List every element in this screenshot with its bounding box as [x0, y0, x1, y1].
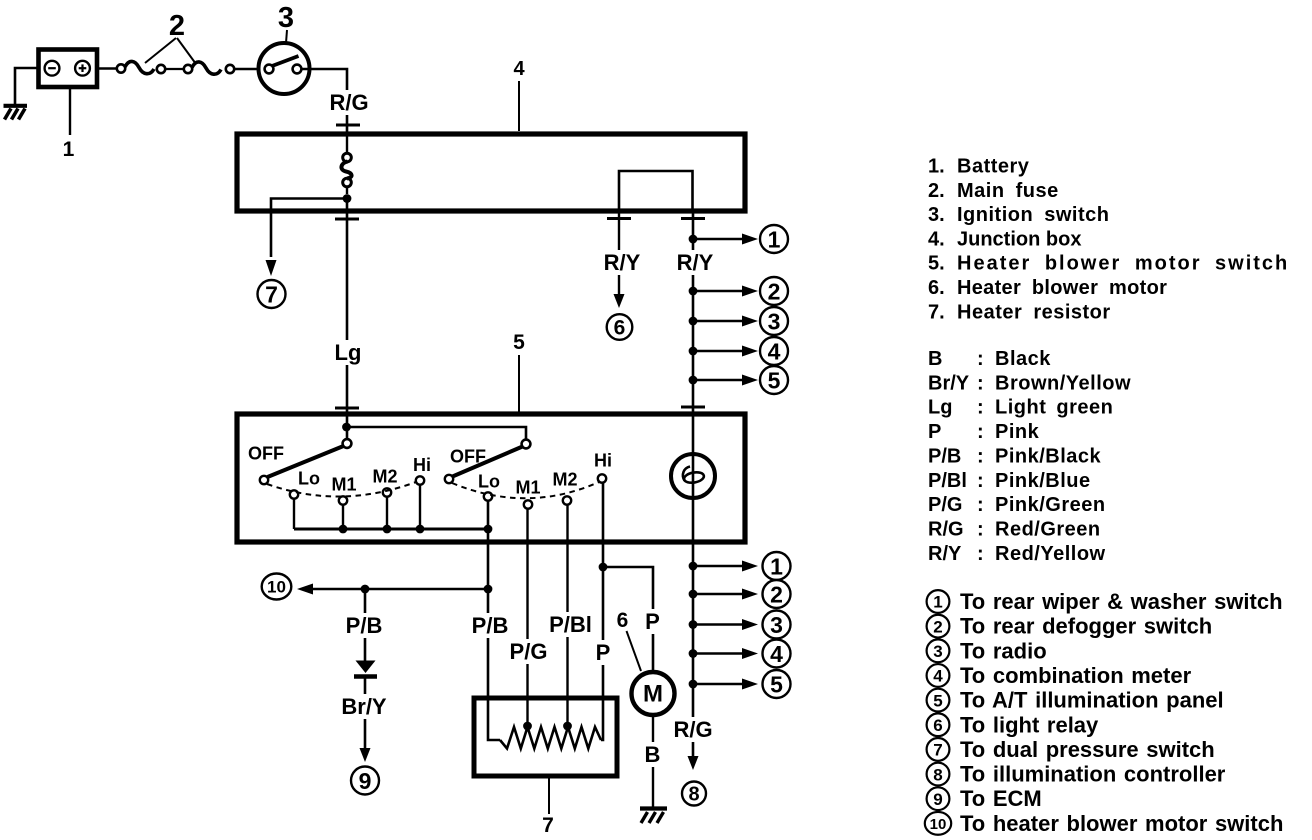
svg-text:6: 6: [614, 317, 626, 340]
label P/B (resistor feed): [467, 613, 513, 638]
svg-text:M: M: [643, 681, 663, 708]
svg-text:6.: 6.: [928, 277, 945, 299]
svg-text:Heater blower motor: Heater blower motor: [957, 277, 1167, 299]
wire P/B branch down to diode: [364, 589, 367, 661]
svg-text:8: 8: [688, 784, 699, 806]
connector tick on R/G wire: [336, 124, 360, 127]
label 4 (junction box) with leader: [518, 81, 520, 131]
node on P wire feeding motor: [599, 563, 608, 572]
wire R/Y to heater blower motor: [618, 211, 620, 294]
connector tick R/Y trunk: [681, 217, 705, 220]
circled 2 (upper): [760, 277, 788, 305]
circled 3 (upper): [760, 307, 788, 335]
switch 1 contact Hi: [416, 476, 424, 484]
wire P/G from switch 2 M1 down to resistor tap: [526, 509, 528, 726]
switch 1 OFF contact: [260, 476, 268, 484]
svg-text:Lo: Lo: [478, 472, 500, 492]
node and arrow to circled 3 (lower): [689, 620, 698, 629]
svg-text:1.: 1.: [928, 156, 945, 178]
node and arrow to circled 5 (upper): [689, 376, 698, 385]
svg-text::: :: [977, 518, 984, 540]
node and arrow to circled 1 (lower): [689, 562, 698, 571]
wire Lg junction box to blower switch box: [346, 199, 349, 441]
switch 1 contact stems to bus: [293, 499, 295, 529]
switch arm 2 (OFF position): [453, 447, 523, 477]
label P/G: [505, 639, 552, 664]
svg-text:10: 10: [930, 816, 947, 833]
switch 2 contact M1: [524, 500, 532, 508]
label P/B (branch to 9/10): [341, 613, 387, 638]
node on wire to 10 where P/B branch drops: [361, 585, 370, 594]
node and arrow to circled 2 (upper): [689, 287, 698, 296]
svg-text:R/G: R/G: [673, 717, 712, 742]
resistor tap node P/Bl: [563, 722, 572, 731]
wire branch to dual pressure switch arrow: [271, 199, 347, 258]
svg-text:Hi: Hi: [594, 451, 612, 471]
svg-text:1: 1: [933, 593, 942, 612]
connector tick below junction box (Lg): [335, 218, 359, 221]
svg-text:P: P: [645, 609, 660, 634]
link wire to second switch pivot: [347, 427, 527, 439]
svg-text:To light relay: To light relay: [960, 712, 1099, 737]
wire B motor to ground: [652, 714, 654, 807]
connector tick R/Y left: [607, 217, 631, 220]
ground (motor): [640, 806, 667, 810]
junction box 4: [237, 134, 745, 211]
svg-text:To illumination controller: To illumination controller: [960, 762, 1226, 787]
circled 7 - to dual pressure switch: [258, 280, 286, 308]
switch 2 contact M2: [563, 496, 571, 504]
svg-text:To heater blower motor switch: To heater blower motor switch: [960, 811, 1283, 836]
svg-text:M1: M1: [331, 475, 356, 495]
svg-text:Pink/Blue: Pink/Blue: [995, 470, 1091, 492]
heater blower motor 6 (M): [632, 672, 675, 715]
node and arrow to circled 2 (lower): [689, 590, 698, 599]
svg-text:To A/T illumination panel: To A/T illumination panel: [960, 688, 1224, 713]
fusible link inside junction box: [346, 134, 348, 154]
resistor tap node P/G: [523, 722, 532, 731]
switch 2 contact Hi: [598, 474, 606, 482]
node on P/B wire to heater blower motor switch line: [484, 585, 493, 594]
circled 1 (upper): [760, 225, 788, 253]
circled 5 (upper): [760, 366, 788, 394]
svg-text:5: 5: [770, 671, 783, 697]
wire Br/Y below diode: [364, 676, 367, 748]
label P (motor feed): [642, 609, 664, 634]
svg-text:M2: M2: [372, 467, 397, 487]
fuse F2 (main fuse): [184, 65, 192, 73]
svg-text::: :: [977, 397, 984, 419]
svg-text:4: 4: [513, 58, 525, 80]
svg-text:P/Bl: P/Bl: [549, 612, 592, 637]
svg-text:5: 5: [513, 331, 525, 354]
svg-text:R/G: R/G: [329, 90, 368, 115]
svg-text:Red/Green: Red/Green: [995, 518, 1101, 540]
svg-text::: :: [977, 421, 984, 443]
svg-text:4.: 4.: [928, 228, 945, 250]
R/G trunk below switch box: [692, 542, 695, 757]
R/Y trunk wire through switch box: [692, 414, 695, 542]
svg-text:To ECM: To ECM: [960, 786, 1042, 811]
arrowhead to circled 9: [360, 748, 371, 762]
label Br/Y: [337, 694, 391, 719]
svg-text:4: 4: [933, 667, 943, 686]
svg-text:P/B: P/B: [346, 613, 383, 638]
arrowhead to circled 6: [614, 294, 625, 308]
svg-text:Pink/Black: Pink/Black: [995, 445, 1102, 467]
svg-text:5.: 5.: [928, 253, 945, 275]
switch 2 dashed arc: [452, 482, 599, 498]
arrowhead to circled 8: [688, 756, 699, 770]
svg-text:Junction box: Junction box: [957, 228, 1081, 250]
switch arm 2 pivot: [522, 440, 531, 449]
diode on P/B to Br/Y branch: [356, 661, 376, 674]
svg-text:P/G: P/G: [928, 494, 962, 516]
svg-text:B: B: [928, 348, 942, 370]
svg-text:7.: 7.: [928, 301, 945, 323]
switch 1 dashed arc: [267, 482, 416, 497]
switch node where Lg enters: [342, 423, 351, 432]
svg-text:3: 3: [278, 2, 294, 34]
svg-text:2: 2: [169, 10, 185, 42]
svg-text:Hi: Hi: [413, 455, 431, 475]
svg-text:R/Y: R/Y: [677, 250, 714, 275]
svg-text:5: 5: [768, 367, 781, 393]
svg-text:7: 7: [933, 741, 942, 760]
svg-text:3: 3: [770, 612, 783, 638]
circled 3 (lower): [763, 611, 791, 639]
label 7 (heater resistor) with leader: [548, 776, 550, 814]
svg-text:6: 6: [933, 716, 942, 735]
ground (battery): [4, 104, 28, 108]
svg-text:Main fuse: Main fuse: [957, 180, 1059, 202]
svg-text::: :: [977, 543, 984, 565]
node and arrow to circled 5 (lower): [689, 680, 698, 689]
circled 5 (lower): [763, 670, 791, 698]
label 5 (switch box) with leader: [518, 355, 520, 412]
svg-text:Brown/Yellow: Brown/Yellow: [995, 372, 1131, 394]
svg-text:10: 10: [267, 578, 286, 597]
heater resistor box 7: [474, 698, 617, 776]
wire P/Bl from switch 2 M2 down to resistor tap: [566, 505, 568, 726]
label R/Y (left): [599, 250, 646, 275]
switch 1 contact Lo: [290, 490, 298, 498]
bus junction dots: [339, 525, 348, 534]
svg-text:2: 2: [933, 617, 942, 636]
wire ignition switch to junction box R/G: [302, 69, 348, 134]
circled 2 (lower): [763, 580, 791, 608]
svg-text:To combination meter: To combination meter: [960, 663, 1192, 688]
svg-text:3: 3: [768, 308, 781, 334]
svg-text:R/Y: R/Y: [928, 543, 962, 565]
svg-text:To radio: To radio: [960, 638, 1047, 663]
label B (motor ground lead): [642, 742, 664, 767]
svg-text:To dual pressure switch: To dual pressure switch: [960, 737, 1215, 762]
arrowhead to circled 10: [297, 584, 313, 595]
wire battery positive to main fuse: [97, 67, 117, 70]
svg-text:P/B: P/B: [928, 445, 961, 467]
svg-text:P: P: [928, 421, 941, 443]
svg-text:Light green: Light green: [995, 397, 1113, 419]
wire battery bottom lead to label 1: [69, 87, 71, 135]
R/Y trunk wire right side: [692, 211, 695, 414]
circled 4 (upper): [760, 337, 788, 365]
svg-text:M1: M1: [515, 478, 540, 498]
heater blower motor switch box 5: [237, 414, 745, 542]
svg-text:To rear defogger switch: To rear defogger switch: [960, 614, 1212, 639]
circled 10 - to heater blower motor switch: [262, 574, 292, 600]
svg-text:Lg: Lg: [928, 397, 952, 419]
svg-text:8: 8: [933, 765, 942, 784]
svg-text:B: B: [645, 742, 661, 767]
node and arrow to circled 4 (lower): [689, 649, 698, 658]
svg-text:OFF: OFF: [248, 444, 284, 464]
junction node on R/G: [343, 194, 352, 203]
label R/Y (trunk): [672, 250, 719, 275]
svg-text:Heater resistor: Heater resistor: [957, 301, 1111, 323]
svg-text::: :: [977, 348, 984, 370]
svg-text:3.: 3.: [928, 204, 945, 226]
svg-text::: :: [977, 494, 984, 516]
wire P from switch 2 Hi down to resistor: [601, 483, 603, 740]
switch arm 1 (OFF position): [268, 446, 344, 477]
svg-text::: :: [977, 470, 984, 492]
svg-text:2: 2: [770, 581, 783, 607]
svg-text:6: 6: [617, 609, 629, 632]
svg-text:2.: 2.: [928, 180, 945, 202]
switch 1 contact M1: [339, 496, 347, 504]
svg-text:Lg: Lg: [335, 340, 362, 365]
fuse F1 (main fuse): [117, 64, 125, 72]
illumination lamp in switch box: [671, 454, 715, 498]
svg-text:Ignition switch: Ignition switch: [957, 204, 1110, 226]
svg-text:Battery: Battery: [957, 156, 1030, 178]
svg-text:1: 1: [63, 138, 75, 161]
resistor zigzag element: [500, 727, 601, 749]
circled 6 - to heater blower motor: [607, 314, 633, 340]
svg-text:7: 7: [265, 281, 278, 307]
wire fuse to ignition switch: [234, 68, 259, 70]
arrowhead to circled 7: [266, 260, 277, 276]
wire P to heater blower motor: [603, 567, 653, 673]
circled 8 - to illumination controller: [682, 782, 706, 806]
svg-text:Pink/Green: Pink/Green: [995, 494, 1106, 516]
svg-text:2: 2: [768, 278, 781, 304]
wire battery negative terminal to ground: [15, 68, 38, 104]
svg-text:Pink: Pink: [995, 421, 1040, 443]
label Lg: [331, 340, 365, 365]
node and arrow to circled 4 (upper): [689, 347, 698, 356]
wire P/B from switch 2 Lo down to resistor: [488, 501, 500, 740]
wire to circled 10: [313, 588, 488, 591]
svg-text:Red/Yellow: Red/Yellow: [995, 543, 1106, 565]
svg-text:3: 3: [933, 642, 942, 661]
svg-text:Lo: Lo: [298, 469, 320, 489]
ignition switch 3: [259, 43, 310, 94]
label P/Bl: [546, 612, 596, 637]
svg-text:5: 5: [933, 691, 942, 710]
svg-text:P: P: [596, 640, 611, 665]
wire between main fuses: [165, 68, 184, 70]
svg-text:M2: M2: [552, 470, 577, 490]
svg-text:To rear wiper & washer switch: To rear wiper & washer switch: [960, 589, 1283, 614]
svg-text:OFF: OFF: [450, 447, 486, 467]
svg-text:P/G: P/G: [510, 639, 548, 664]
connector tick above switch box (Lg): [335, 407, 359, 410]
switch 1 contact M2: [383, 488, 391, 496]
svg-text:7: 7: [542, 814, 554, 837]
junction box internal bus for R/Y: [619, 171, 693, 211]
svg-text:9: 9: [359, 768, 372, 794]
switch bus wire: [294, 528, 488, 531]
svg-text:P/Bl: P/Bl: [928, 470, 967, 492]
svg-text:1: 1: [770, 553, 783, 579]
circled 1 (lower): [763, 552, 791, 580]
svg-text::: :: [977, 445, 984, 467]
svg-text:Br/Y: Br/Y: [341, 694, 387, 719]
switch 2 contact Lo: [484, 492, 492, 500]
svg-text:Black: Black: [995, 348, 1051, 370]
svg-text:P/B: P/B: [472, 613, 509, 638]
svg-text:4: 4: [768, 338, 781, 364]
battery 1: [39, 50, 98, 88]
label R/G (ignition to junction box): [326, 90, 373, 115]
circled 4 (lower): [763, 640, 791, 668]
node and arrow to circled 3 (upper): [689, 317, 698, 326]
svg-text:4: 4: [770, 641, 783, 667]
node and arrow to circled 1 (upper): [689, 235, 698, 244]
switch 2 OFF contact: [445, 475, 453, 483]
circled 9 - to ECM: [351, 767, 379, 795]
svg-text:Br/Y: Br/Y: [928, 372, 970, 394]
switch arm 1 pivot: [343, 439, 352, 448]
label P (resistor feed): [592, 640, 614, 665]
svg-text:9: 9: [933, 790, 942, 809]
svg-text:Heater blower motor switch: Heater blower motor switch: [957, 253, 1289, 275]
svg-text:1: 1: [768, 226, 781, 252]
svg-text:R/Y: R/Y: [604, 250, 641, 275]
label R/G (to illumination controller): [670, 717, 717, 742]
svg-text:R/G: R/G: [928, 518, 964, 540]
svg-text::: :: [977, 372, 984, 394]
connector tick above switch box (R/Y trunk): [681, 406, 705, 409]
legend circled destinations: [927, 590, 950, 613]
